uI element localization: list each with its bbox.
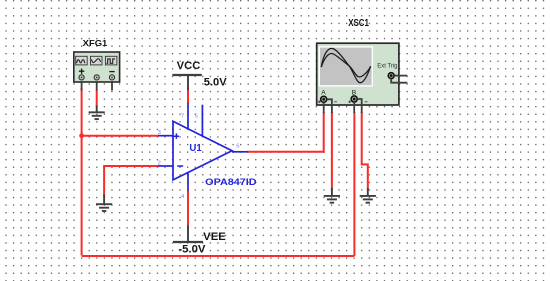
wire VEE segment (187, 190, 189, 227)
XFG1 function generator (74, 38, 120, 82)
triangle icon (91, 56, 103, 65)
svg-text:VEE: VEE (203, 231, 226, 243)
node junction dot (79, 133, 84, 138)
wire A- to ground (331, 112, 333, 190)
pin 7 stub (187, 103, 189, 129)
svg-text:U1: U1 (189, 143, 202, 154)
wire XFG1+ vertical to bottom (81, 88, 83, 255)
wire XFG1 common to ground (96, 90, 98, 108)
svg-text:-5.0V: -5.0V (178, 244, 206, 256)
plus label (79, 69, 84, 74)
svg-text:6: 6 (236, 144, 239, 150)
ground (scope B-) (360, 188, 376, 203)
pin 4 stub (187, 172, 189, 190)
svg-text:VCC: VCC (177, 60, 201, 72)
wire A+ riser (323, 112, 325, 153)
channel A terminal (321, 96, 327, 102)
pin 6 stub (232, 151, 248, 153)
ground (scope A-) (324, 188, 340, 203)
wire B+ riser (353, 112, 355, 256)
scope trace inner (321, 54, 370, 78)
VCC power symbol (172, 60, 227, 90)
plus mark (174, 133, 180, 139)
VEE power symbol (173, 226, 226, 256)
XFG1 pin stubs (82, 80, 112, 91)
square icon (105, 56, 117, 65)
minus label (109, 71, 114, 73)
svg-text:5: 5 (195, 113, 198, 119)
sine icon (76, 56, 88, 65)
svg-text:XFG1: XFG1 (83, 38, 108, 48)
svg-text:3: 3 (158, 130, 161, 136)
svg-text:2: 2 (158, 160, 161, 166)
svg-text:7: 7 (181, 113, 184, 119)
pin 3 stub (158, 135, 173, 137)
wire bottom feedback run (82, 255, 355, 257)
pin 5 stub (201, 105, 203, 137)
channel B terminal (351, 96, 357, 102)
XSC1 oscilloscope (317, 17, 408, 113)
op-amp U1 (158, 103, 248, 191)
scope trace outer (321, 48, 370, 82)
ground (inverting input) (96, 195, 112, 212)
svg-text:5.0V: 5.0V (204, 76, 227, 88)
svg-text:XSC1: XSC1 (348, 17, 369, 29)
wire B- to ground (362, 112, 368, 190)
wire VCC segment (187, 89, 189, 104)
minus mark (177, 165, 183, 167)
pin 2 stub (158, 165, 173, 167)
svg-text:OPA847ID: OPA847ID (205, 177, 256, 188)
Ext Trig terminal (388, 73, 394, 79)
wire inverting input to ground (104, 166, 159, 196)
wire to noninverting input (82, 135, 159, 137)
scope screen (319, 46, 373, 86)
terminals (79, 75, 115, 80)
svg-text:Ext Trig: Ext Trig (377, 63, 397, 70)
ground (XFG1 common) (89, 106, 105, 120)
wire output to scope A (248, 151, 324, 153)
